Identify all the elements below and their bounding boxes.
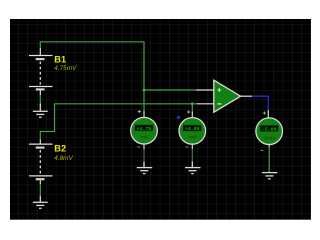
B1 cell1 short plate bbox=[36, 58, 45, 60]
M1 plus marker bbox=[138, 110, 141, 113]
voltmeter M2 bbox=[177, 111, 206, 174]
B2 cell1 short plate bbox=[36, 147, 45, 149]
B2 cell2 short plate bbox=[36, 178, 45, 180]
M1 pin bottom bbox=[143, 144, 145, 149]
svg-text:4.8mV: 4.8mV bbox=[54, 155, 73, 162]
M1 minus marker bbox=[137, 146, 140, 148]
M2 display bbox=[183, 125, 202, 131]
wire net3 (blue): op-amp output to meter M3 bbox=[252, 96, 268, 110]
M3 minus marker bbox=[261, 149, 264, 151]
ground under B2 bbox=[33, 196, 48, 208]
M1 body bbox=[131, 117, 158, 144]
op-amp input pin stubs bbox=[197, 90, 214, 104]
B1 cell2 short plate bbox=[36, 88, 45, 90]
M2 wire to ground bbox=[191, 149, 193, 162]
op-amp minus mark bbox=[217, 103, 221, 105]
voltmeter M3 bbox=[256, 110, 283, 179]
svg-text:mV: mV bbox=[189, 135, 197, 141]
svg-text:-5.00: -5.00 bbox=[262, 126, 277, 132]
M3 pin bottom bbox=[268, 145, 270, 147]
M3 ground bbox=[262, 172, 278, 179]
M2 pin top bbox=[191, 112, 193, 118]
wire net1: B1+ to op-amp +input and meter M1 bbox=[40, 42, 196, 111]
op-amp body bbox=[214, 80, 241, 112]
junction node at (144,90) bbox=[143, 89, 146, 92]
battery B2 bbox=[29, 140, 53, 185]
M2 body bbox=[179, 118, 206, 145]
B1 dashed link bbox=[39, 62, 41, 85]
B1 pin top bbox=[39, 48, 41, 55]
battery B1 bbox=[29, 48, 53, 95]
M2 ground bbox=[185, 162, 201, 174]
wire net2: B2+ to op-amp -input and meter M2 bbox=[40, 104, 196, 140]
B1 pin bottom bbox=[39, 91, 41, 96]
op-amp plus mark bbox=[217, 88, 221, 92]
B2 dashed link bbox=[39, 150, 41, 173]
M2 minus marker bbox=[186, 146, 189, 148]
B2 pin top bbox=[39, 140, 41, 144]
svg-text:B2: B2 bbox=[54, 143, 66, 153]
blue node dot bbox=[177, 116, 180, 119]
M3 pin top bbox=[267, 110, 269, 118]
M1 pin top bbox=[143, 111, 145, 117]
B2 cell1 long plate bbox=[29, 143, 53, 145]
M3 wire to ground bbox=[268, 147, 270, 172]
B2 pin bottom bbox=[39, 180, 41, 184]
M1 ground bbox=[137, 162, 153, 174]
M3 display bbox=[260, 125, 279, 131]
ground under B1 bbox=[33, 104, 48, 118]
M2 pin bottom bbox=[191, 144, 193, 149]
voltmeter M1 bbox=[131, 110, 158, 174]
wire B1- to ground bbox=[39, 95, 41, 104]
svg-text:+4.80: +4.80 bbox=[185, 126, 200, 132]
M3 plus marker bbox=[263, 112, 266, 115]
M2 plus marker bbox=[187, 111, 190, 114]
svg-text:B1: B1 bbox=[54, 54, 66, 64]
svg-text:Volts: Volts bbox=[264, 135, 276, 140]
svg-text:+4.75: +4.75 bbox=[137, 126, 152, 132]
M1 display bbox=[135, 125, 154, 131]
B1 cell2 long plate bbox=[29, 86, 53, 88]
wire B2- to ground bbox=[39, 184, 41, 196]
B1 cell1 long plate bbox=[29, 55, 53, 57]
M3 body bbox=[256, 118, 283, 145]
M1 wire to ground bbox=[143, 149, 145, 162]
svg-text:4.75mV: 4.75mV bbox=[54, 65, 77, 72]
junction node at (192.3,103.8) bbox=[191, 102, 194, 105]
B2 cell2 long plate bbox=[29, 175, 53, 177]
svg-text:mV: mV bbox=[141, 134, 149, 140]
op-amp U1 bbox=[197, 80, 253, 112]
op-amp output pin bbox=[241, 95, 252, 97]
